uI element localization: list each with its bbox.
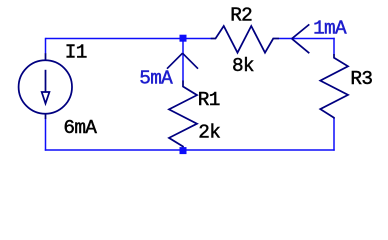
wire bottom horizontal — [45, 149, 335, 151]
current source I1 top pin — [45, 53, 47, 60]
wire middle vertical — [182, 39, 184, 81]
svg-text:5mA: 5mA — [139, 67, 173, 89]
resistor R1 — [169, 81, 197, 148]
resistor R2 — [211, 26, 279, 53]
current arrow 5mA (pointing up) — [167, 53, 198, 68]
current source I1 circle — [19, 60, 72, 113]
svg-text:2k: 2k — [198, 122, 220, 144]
wire top left horizontal — [46, 38, 212, 40]
svg-text:6mA: 6mA — [63, 117, 97, 139]
wire left vertical upper — [45, 38, 47, 54]
svg-text:R2: R2 — [230, 4, 252, 26]
current source I1 bottom pin — [45, 113, 47, 119]
resistor R3 — [320, 54, 348, 119]
svg-text:R3: R3 — [350, 68, 372, 90]
svg-text:I1: I1 — [65, 42, 87, 64]
svg-text:1mA: 1mA — [313, 17, 347, 39]
node junction bottom — [180, 147, 187, 154]
wire top right horizontal — [279, 38, 335, 40]
svg-text:8k: 8k — [232, 55, 254, 77]
current source I1 arrow — [42, 70, 50, 104]
wire right vertical lower — [333, 118, 335, 150]
wire left vertical lower — [45, 119, 47, 151]
wire right vertical upper — [333, 38, 335, 54]
node junction top — [180, 35, 187, 42]
svg-text:R1: R1 — [198, 89, 220, 111]
current arrow 1mA (pointing left) — [292, 24, 310, 53]
